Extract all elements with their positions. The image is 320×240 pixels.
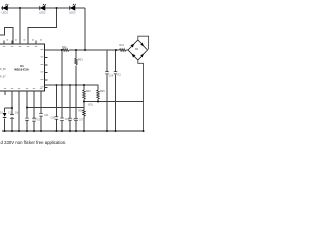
wire xyxy=(83,99,85,110)
svg-text:R02: R02 xyxy=(62,46,67,49)
node i xyxy=(83,101,85,103)
wire xyxy=(61,121,63,131)
node bus10 xyxy=(75,130,77,132)
wire xyxy=(106,74,108,131)
resistor R4 xyxy=(83,90,86,99)
diode (upper-right arm) xyxy=(140,43,144,47)
diode (lower-right arm) xyxy=(140,54,144,58)
resistor R1 (input fusible) xyxy=(120,49,126,52)
capacitor C5 (x62) xyxy=(60,118,64,121)
node bus9 xyxy=(69,130,71,132)
wire xyxy=(11,95,13,115)
wire xyxy=(75,121,77,131)
LED LED3 xyxy=(70,4,76,10)
wire xyxy=(33,95,35,118)
node bus14 xyxy=(143,130,145,132)
svg-text:LED1: LED1 xyxy=(2,10,9,14)
pins U1 stubs xyxy=(4,41,48,95)
svg-text:C04: C04 xyxy=(44,114,49,117)
wire xyxy=(97,99,99,102)
LED LED2 xyxy=(40,4,46,10)
wire xyxy=(1,7,85,9)
node bus7 xyxy=(55,130,57,132)
junction dots xyxy=(4,7,145,132)
svg-text:P_07: P_07 xyxy=(0,75,6,78)
node b xyxy=(75,49,77,51)
wire xyxy=(75,50,77,59)
resistor R2 (series on VOUT line) xyxy=(63,49,69,52)
svg-text:WD19-E3A: WD19-E3A xyxy=(14,68,30,72)
pin name marks inside bottom xyxy=(4,87,42,90)
svg-text:C06: C06 xyxy=(73,118,78,121)
node bus3 xyxy=(18,130,20,132)
svg-text:C09: C09 xyxy=(109,74,114,77)
svg-text:C07: C07 xyxy=(79,118,84,121)
wire xyxy=(106,50,108,71)
capacitor C3 (x34) xyxy=(32,118,36,121)
node bus11 xyxy=(83,130,85,132)
node bus8 xyxy=(61,130,63,132)
wire xyxy=(33,122,35,132)
wire xyxy=(83,85,85,90)
svg-text:LED3: LED3 xyxy=(69,10,76,14)
svg-text:R03: R03 xyxy=(78,59,83,62)
wire xyxy=(18,95,20,132)
svg-text:(C): (C) xyxy=(118,74,122,77)
wire xyxy=(4,119,6,132)
wire xyxy=(115,74,117,131)
node c xyxy=(84,49,86,51)
wire xyxy=(11,118,13,131)
svg-text:B1: B1 xyxy=(135,48,139,51)
wire xyxy=(5,107,12,109)
node g xyxy=(75,84,77,86)
svg-text:P_06: P_06 xyxy=(0,68,6,71)
capacitor C6 (x70) xyxy=(68,118,72,120)
node e xyxy=(61,84,63,86)
wire xyxy=(69,85,71,118)
svg-text:C03: C03 xyxy=(37,119,42,122)
wire xyxy=(44,49,62,51)
diode (upper-left arm) xyxy=(130,44,134,48)
node bus6 xyxy=(40,130,42,132)
capacitor CX1 (x107) xyxy=(105,72,109,74)
svg-text:d 230V non flicker free applic: d 230V non flicker free application. xyxy=(1,140,67,145)
wire xyxy=(26,121,28,131)
svg-text:R04: R04 xyxy=(86,90,91,93)
wire xyxy=(27,107,84,109)
wire xyxy=(0,28,13,44)
pin name marks inside right xyxy=(40,49,43,87)
wire xyxy=(4,108,6,113)
diode D1 (bottom left) xyxy=(3,113,7,117)
capacitor C2 (x27) xyxy=(25,118,29,120)
capacitor C7 (x76) xyxy=(74,118,78,120)
wire xyxy=(126,49,128,51)
svg-text:C1: C1 xyxy=(8,111,12,114)
wire xyxy=(28,8,57,44)
node e0 xyxy=(56,84,58,86)
wire xyxy=(75,66,77,119)
wire xyxy=(83,116,85,131)
resistor R3 (vertical at x76) xyxy=(75,59,78,65)
ground bus wire xyxy=(2,130,144,132)
wire xyxy=(84,101,144,103)
diode (lower-left arm) xyxy=(132,54,136,58)
resistor R6 (vertical at x84 low) xyxy=(83,110,86,116)
capacitor CX2 (x115.5) xyxy=(114,72,118,74)
svg-text:10u: 10u xyxy=(15,111,20,114)
wire xyxy=(138,36,149,49)
labels xyxy=(0,10,139,145)
svg-text:R01: R01 xyxy=(119,44,124,47)
node top2 xyxy=(56,7,58,9)
pin marks top xyxy=(6,39,42,42)
wire xyxy=(84,8,86,50)
node bus1 xyxy=(4,130,6,132)
bridge rectifier BR1 xyxy=(128,36,149,131)
wire xyxy=(55,119,57,131)
capacitor C1 electrolytic (x12) xyxy=(10,115,14,119)
node a xyxy=(61,49,63,51)
node bus4 xyxy=(26,130,28,132)
wire xyxy=(40,117,42,132)
resistor R5 xyxy=(97,90,100,99)
node h xyxy=(83,84,85,86)
LED LED1 xyxy=(2,4,8,10)
wire xyxy=(55,85,57,117)
node d xyxy=(115,49,117,51)
node l xyxy=(26,107,28,109)
svg-text:VD1: VD1 xyxy=(88,104,93,107)
wire xyxy=(26,95,28,118)
node bus2 xyxy=(11,130,13,132)
wire xyxy=(69,49,120,51)
node bus13 xyxy=(115,130,117,132)
wire xyxy=(40,95,42,114)
node k xyxy=(11,107,13,109)
svg-text:C05: C05 xyxy=(65,118,70,121)
svg-text:C08: C08 xyxy=(50,117,55,120)
wire xyxy=(115,50,117,71)
wire xyxy=(69,121,71,131)
node bus12 xyxy=(106,130,108,132)
wire xyxy=(138,60,144,131)
pin name marks inside top xyxy=(3,45,37,48)
capacitor C4 (x41) xyxy=(39,113,43,116)
svg-text:D1: D1 xyxy=(0,111,4,114)
wire xyxy=(19,8,21,44)
capacitor C8 (x56.4) xyxy=(55,117,59,119)
svg-text:R05: R05 xyxy=(100,90,105,93)
svg-text:R06: R06 xyxy=(78,109,83,112)
svg-text:LED2: LED2 xyxy=(39,10,46,14)
wire xyxy=(44,85,98,90)
node top1 xyxy=(19,7,21,9)
op-amp U1 IC box xyxy=(0,44,44,91)
wire xyxy=(61,50,63,118)
node f xyxy=(69,84,71,86)
node bus5 xyxy=(33,130,35,132)
node j xyxy=(97,101,99,103)
